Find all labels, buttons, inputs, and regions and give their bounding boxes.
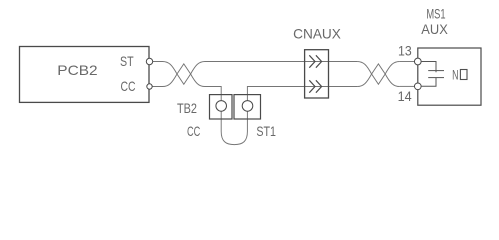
svg-text:MS1: MS1 (426, 5, 445, 21)
svg-text:TB2: TB2 (177, 100, 197, 116)
svg-text:N: N (452, 67, 458, 83)
svg-text:14: 14 (398, 88, 412, 104)
svg-text:ST1: ST1 (256, 123, 276, 139)
svg-text:AUX: AUX (421, 21, 448, 37)
svg-text:13: 13 (398, 43, 412, 59)
svg-text:CC: CC (187, 123, 200, 139)
svg-text:PCB2: PCB2 (57, 62, 98, 78)
svg-text:CNAUX: CNAUX (293, 26, 341, 42)
svg-text:CC: CC (121, 78, 136, 94)
svg-text:ST: ST (120, 53, 134, 69)
